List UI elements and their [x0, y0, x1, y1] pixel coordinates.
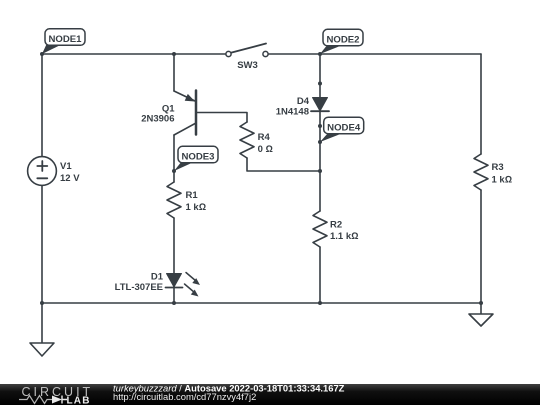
svg-text:12 V: 12 V — [60, 173, 80, 184]
wire middle branch — [319, 54, 321, 211]
svg-text:1 kΩ: 1 kΩ — [186, 202, 207, 213]
node junction dot bottom left — [40, 301, 44, 305]
svg-text:LTL-307EE: LTL-307EE — [115, 282, 163, 293]
node flag NODE2 — [320, 29, 363, 54]
svg-text:SW3: SW3 — [237, 60, 258, 71]
svg-text:http://circuitlab.com/cd77nzvy: http://circuitlab.com/cd77nzvy4f7j2 — [113, 391, 256, 402]
wire bottom rail — [42, 302, 481, 304]
ground symbol right — [469, 314, 493, 326]
wire top rail left — [42, 53, 226, 55]
wire collector down to R1 — [173, 135, 175, 182]
voltage source V1 — [28, 157, 57, 186]
diode D4 — [311, 98, 329, 112]
wire R1 to D1 to rail — [173, 218, 175, 303]
svg-text:LAB: LAB — [67, 396, 91, 405]
svg-text:NODE4: NODE4 — [327, 123, 361, 134]
LED D1 — [166, 273, 201, 297]
resistor R3 — [474, 154, 488, 190]
resistor R4 — [240, 122, 254, 158]
wire R4 bottom to node — [247, 158, 320, 171]
resistor R1 — [167, 182, 181, 218]
node dot D4 anode — [318, 82, 322, 86]
wire top rail right — [268, 53, 481, 55]
node junction dot D1 bottom — [172, 301, 176, 305]
node dot D4 cathode — [318, 124, 322, 128]
svg-text:R1: R1 — [186, 190, 199, 201]
svg-text:1N4148: 1N4148 — [276, 107, 309, 118]
svg-text:1 kΩ: 1 kΩ — [492, 174, 513, 185]
node junction dot Q1 top — [172, 52, 176, 56]
wire R2 bottom — [319, 247, 321, 303]
svg-text:D4: D4 — [297, 96, 310, 107]
ground symbol left — [30, 343, 54, 356]
switch SW3 — [226, 44, 268, 57]
svg-text:2N3906: 2N3906 — [141, 114, 174, 125]
wire base to R4 — [196, 113, 247, 123]
node junction dot NODE2 — [318, 52, 322, 56]
svg-text:NODE2: NODE2 — [326, 35, 359, 46]
wire emitter Q1 top — [173, 54, 175, 91]
svg-text:1.1 kΩ: 1.1 kΩ — [330, 231, 358, 242]
svg-text:Q1: Q1 — [162, 103, 175, 114]
CircuitLab logo — [19, 385, 93, 405]
svg-text:R4: R4 — [258, 132, 271, 143]
wire R3 bottom — [480, 190, 482, 303]
svg-text:NODE1: NODE1 — [48, 34, 82, 45]
svg-text:V1: V1 — [60, 161, 72, 172]
wire right branch upper — [480, 54, 482, 154]
node junction dot R2 bottom — [318, 301, 322, 305]
wire left branch upper — [41, 54, 43, 157]
node junction dot R4/R2 — [318, 169, 322, 173]
wire left branch lower — [41, 186, 43, 304]
svg-text:R3: R3 — [492, 162, 504, 173]
wire ground left stub — [41, 303, 43, 343]
svg-text:R2: R2 — [330, 220, 342, 231]
wire ground right stub — [480, 303, 482, 314]
svg-text:NODE3: NODE3 — [181, 152, 214, 163]
node flag NODE4 — [320, 117, 364, 142]
node dot NODE4 attach — [318, 140, 322, 144]
svg-text:0 Ω: 0 Ω — [258, 144, 273, 155]
node junction dot R3 bottom — [479, 301, 483, 305]
node flag NODE1 — [42, 29, 85, 54]
transistor Q1 — [174, 91, 196, 136]
node flag NODE3 — [174, 146, 218, 171]
node junction dot NODE3 — [172, 169, 176, 173]
resistor R2 — [313, 211, 327, 247]
node junction dot at NODE1 corner — [40, 52, 44, 56]
svg-text:D1: D1 — [151, 272, 164, 283]
